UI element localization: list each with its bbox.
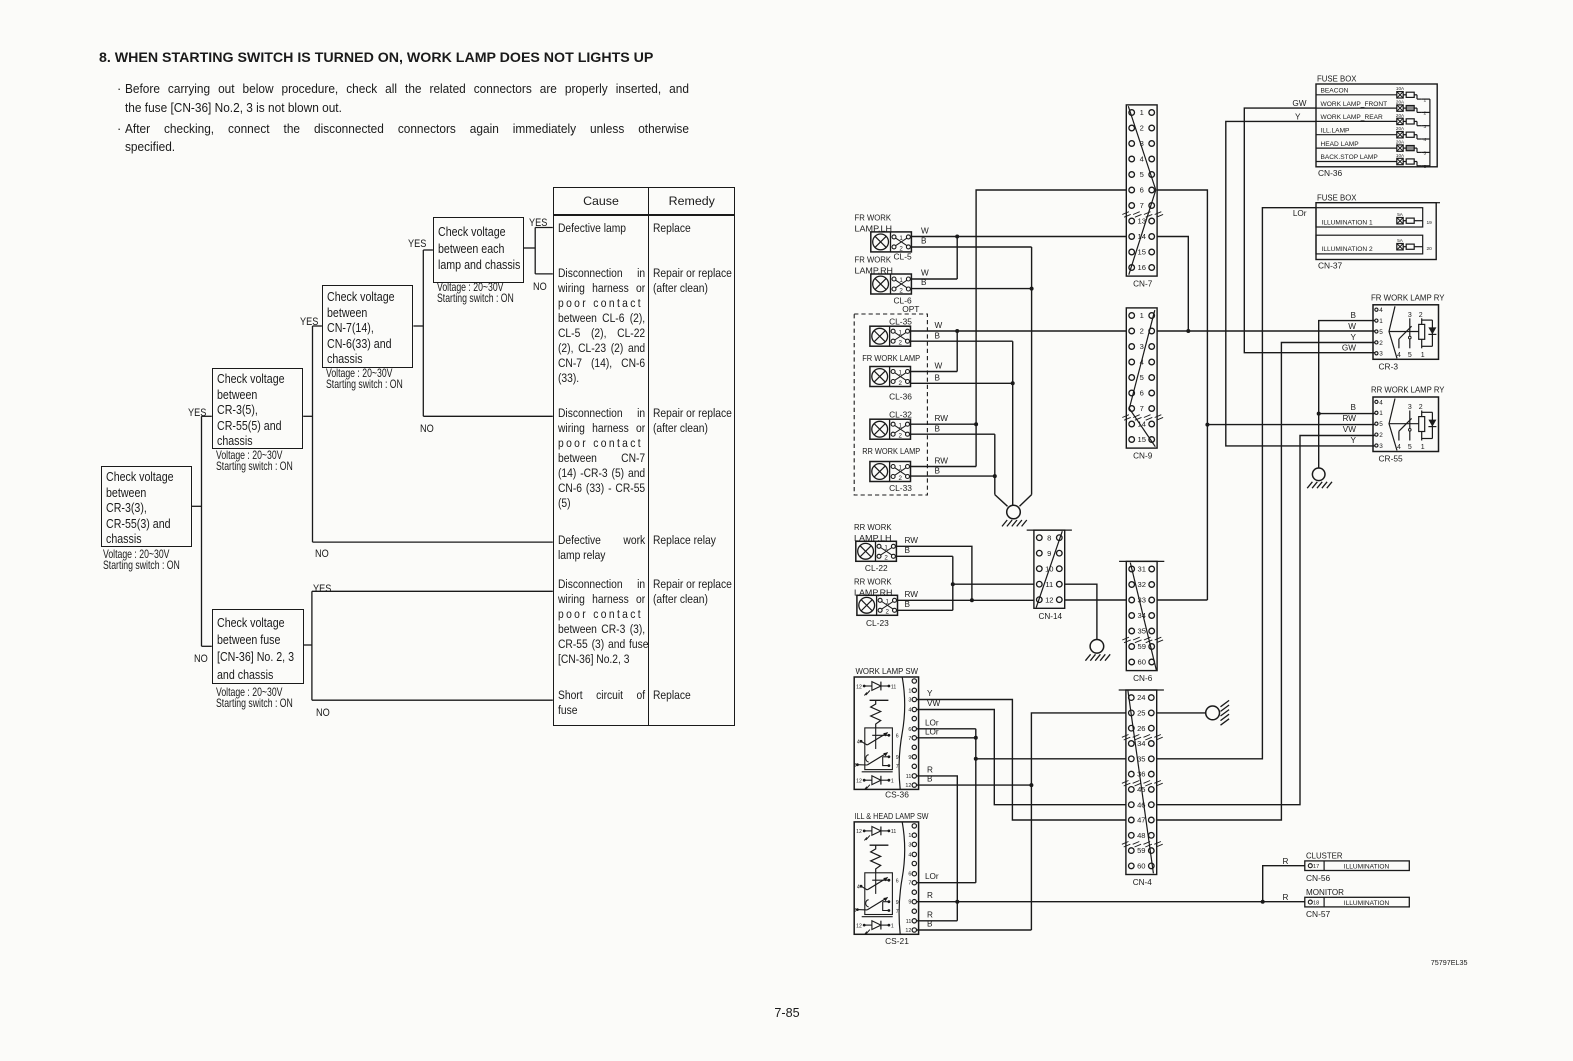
connector CN-14	[1027, 530, 1072, 621]
svg-text:CL-36: CL-36	[889, 391, 912, 401]
svg-text:RW: RW	[1343, 414, 1357, 423]
wire CN-7 pin6 to RW vertical	[1157, 190, 1207, 600]
lamp CL-23 (RR WORK LAMP RH)	[857, 595, 898, 615]
svg-text:17: 17	[1313, 864, 1319, 870]
svg-text:RW: RW	[935, 457, 949, 466]
svg-text:1: 1	[891, 923, 894, 929]
svg-text:WORK LAMP_FRONT: WORK LAMP_FRONT	[1321, 101, 1388, 108]
svg-text:FR WORK: FR WORK	[855, 213, 892, 223]
svg-text:3: 3	[908, 842, 911, 848]
wire CL-36 pin1 W	[911, 371, 958, 373]
svg-text:CR-55: CR-55	[1379, 454, 1404, 464]
wire CL-32/33 B into ground G1	[995, 495, 1008, 507]
junction at CN-9 pin2 wire	[1186, 329, 1190, 333]
svg-text:R: R	[1283, 893, 1289, 902]
svg-text:ILLUMINATION 2: ILLUMINATION 2	[1322, 246, 1374, 253]
wire B bus down CL-5/CL-6	[1031, 247, 1033, 495]
svg-text:32: 32	[1137, 580, 1145, 589]
svg-text:6: 6	[908, 872, 911, 878]
intro bullet line 2	[125, 101, 361, 115]
relay CR-55 (RR WORK LAMP RY)	[1343, 385, 1445, 464]
wire B bus to CN-4 pin25	[1031, 713, 1126, 930]
svg-text:B: B	[935, 425, 941, 434]
svg-text:20A: 20A	[1396, 140, 1405, 145]
svg-text:B: B	[905, 600, 911, 609]
svg-text:7: 7	[1140, 404, 1144, 413]
svg-text:59: 59	[1137, 642, 1145, 651]
svg-text:1: 1	[891, 779, 894, 785]
svg-text:2: 2	[898, 340, 902, 347]
wire CL-6 pin1 W	[911, 278, 957, 280]
wire CS-21 pin11 R	[917, 920, 958, 922]
svg-text:LAMP,RH: LAMP,RH	[855, 266, 894, 276]
connector CN-4	[1119, 690, 1164, 887]
flowchart box 2	[212, 368, 303, 448]
wire W junction to CN-7 pin14	[957, 236, 1126, 238]
svg-text:BACK.STOP LAMP: BACK.STOP LAMP	[1321, 154, 1379, 161]
wire LOr to CN-4 pin35 left	[976, 758, 1126, 760]
wire CL-36 pin2 B	[911, 382, 1013, 384]
svg-text:ILLUMINATION: ILLUMINATION	[1344, 863, 1390, 870]
svg-text:12: 12	[856, 684, 862, 690]
wire CS-36 pin3 Y to CN-4 pin47 left	[917, 700, 1126, 821]
svg-text:2: 2	[899, 287, 903, 294]
table row 1: defective lamp	[558, 221, 663, 236]
svg-text:1: 1	[1424, 97, 1427, 103]
ground G3 (relay coils)	[1307, 468, 1332, 488]
svg-text:CN-14: CN-14	[1038, 612, 1062, 621]
label NO box4	[533, 277, 549, 295]
svg-text:VW: VW	[1343, 425, 1356, 434]
svg-text:6: 6	[1424, 164, 1427, 170]
svg-text:8: 8	[1047, 533, 1051, 542]
svg-text:2: 2	[1379, 340, 1383, 347]
svg-text:7: 7	[896, 909, 899, 915]
wire B bus into ground G1	[1020, 495, 1032, 507]
wire CN-9 pin2 to CR-3 pin5 (W)	[1157, 330, 1374, 332]
svg-text:6: 6	[908, 727, 911, 733]
flow vertical box5 YES/NO	[311, 591, 313, 700]
wire CL-22 pin2 B	[896, 555, 952, 557]
svg-text:20A: 20A	[1396, 113, 1405, 118]
svg-text:CL-22: CL-22	[865, 563, 888, 573]
svg-text:4: 4	[908, 708, 911, 714]
flow vertical box2 YES/NO	[312, 326, 314, 542]
svg-text:4: 4	[1424, 137, 1427, 143]
svg-text:OPT: OPT	[902, 304, 919, 314]
svg-text:B: B	[1351, 311, 1357, 320]
wire CL-33 pin1 RW	[911, 466, 977, 468]
svg-text:3: 3	[1379, 351, 1383, 358]
flow line box4 out	[524, 247, 535, 249]
svg-text:HEAD LAMP: HEAD LAMP	[1321, 141, 1360, 148]
svg-text:31: 31	[1137, 565, 1145, 574]
svg-text:CS-36: CS-36	[885, 790, 909, 800]
wire CL-22 B bus	[952, 556, 954, 610]
svg-text:WORK LAMP_REAR: WORK LAMP_REAR	[1321, 114, 1384, 121]
OPT dashed box	[854, 314, 927, 495]
wire CS-21 pin7 LOr	[917, 882, 976, 884]
svg-text:CL-35: CL-35	[889, 316, 912, 326]
svg-text:1: 1	[1379, 318, 1383, 325]
flow line box5 out	[304, 644, 312, 646]
junction RW to CR-55 pin5	[1205, 423, 1209, 427]
svg-text:5: 5	[1408, 352, 1412, 359]
svg-text:B: B	[921, 278, 927, 287]
svg-text:12: 12	[856, 779, 862, 785]
wire CN-14 pin11 right to ground G2	[1065, 584, 1097, 639]
svg-text:2: 2	[1140, 327, 1144, 336]
svg-text:35: 35	[1137, 627, 1145, 636]
svg-text:3: 3	[1424, 124, 1427, 130]
svg-text:W: W	[921, 227, 929, 236]
flow line box3 out	[413, 325, 423, 327]
switch CS-36 (WORK LAMP SW)	[854, 677, 919, 790]
svg-text:9: 9	[908, 755, 911, 761]
wire RW to CR-55 pin5	[1207, 424, 1374, 426]
svg-text:1: 1	[1140, 311, 1144, 320]
junction CL-5/CL-6 W	[955, 235, 959, 239]
svg-text:1: 1	[1140, 108, 1144, 117]
svg-text:Y: Y	[1295, 113, 1301, 122]
svg-text:B: B	[935, 332, 941, 341]
wire LOr bus vertical	[975, 729, 977, 883]
svg-text:10A: 10A	[1396, 86, 1405, 91]
wire CL-5 pin1 W to junction	[911, 236, 957, 238]
svg-text:RR WORK LAMP RY: RR WORK LAMP RY	[1371, 385, 1445, 395]
svg-text:3: 3	[1379, 443, 1383, 450]
wire CS-36 pin6 LOr	[917, 728, 976, 730]
wire CN-4 pin25 right to ground G4	[1156, 712, 1206, 714]
svg-text:5: 5	[1379, 329, 1383, 336]
connector CN-7	[1122, 105, 1163, 289]
svg-text:R: R	[927, 765, 933, 774]
relay CR-3 (FR WORK LAMP RY)	[1342, 292, 1445, 371]
svg-text:2: 2	[1424, 111, 1427, 117]
junction R at cluster branch	[1261, 900, 1265, 904]
svg-text:W: W	[935, 321, 943, 330]
flow line box5 NO to table	[312, 699, 553, 701]
ground G2 (CN-14 pin11)	[1085, 640, 1110, 661]
connector CN-56 (CLUSTER)	[1305, 851, 1410, 871]
svg-text:19: 19	[1427, 220, 1433, 226]
svg-text:FUSE BOX: FUSE BOX	[1317, 193, 1357, 203]
intro bullet line 4	[125, 140, 179, 154]
svg-text:B: B	[935, 467, 941, 476]
svg-text:2: 2	[1379, 432, 1383, 439]
svg-text:CN-56: CN-56	[1306, 873, 1331, 883]
svg-text:CS-21: CS-21	[885, 936, 909, 946]
junction LOr pins 6/7	[974, 736, 978, 740]
svg-text:9: 9	[896, 900, 899, 906]
svg-text:RR WORK LAMP: RR WORK LAMP	[862, 446, 920, 456]
svg-text:7: 7	[908, 736, 911, 742]
svg-text:Y: Y	[927, 689, 933, 698]
lamp CL-5 (FR WORK LAMP LH)	[871, 232, 912, 252]
svg-text:5A: 5A	[1397, 212, 1404, 217]
wire B bus CL-32/33	[994, 434, 996, 494]
junction RW bus at CL-32	[974, 422, 978, 426]
svg-text:25: 25	[1137, 709, 1145, 718]
lamp CL-6 (FR WORK LAMP RH)	[871, 274, 912, 294]
flow line into box5	[202, 645, 212, 647]
svg-text:LOr: LOr	[925, 718, 939, 727]
table row 5	[558, 577, 663, 667]
wire CL-32 pin2 B	[911, 433, 995, 435]
svg-text:7: 7	[896, 764, 899, 770]
wire CL-23 pin1 RW to CN-14 pin12	[898, 599, 1034, 601]
svg-text:12: 12	[905, 783, 911, 789]
label NO box2	[315, 544, 331, 562]
svg-text:LAMP,LH: LAMP,LH	[854, 533, 892, 543]
svg-text:4: 4	[857, 740, 860, 746]
wire CL-35 pin1 W to junction	[911, 330, 958, 332]
svg-text:10A: 10A	[1396, 153, 1405, 158]
svg-text:4: 4	[857, 885, 860, 891]
flow line box4 NO to table	[535, 273, 553, 275]
svg-text:3: 3	[1408, 312, 1412, 319]
wire CL-22 pin1 RW	[896, 546, 972, 600]
svg-text:5: 5	[1408, 444, 1412, 451]
svg-text:CN-37: CN-37	[1318, 261, 1343, 271]
svg-text:3: 3	[854, 763, 857, 769]
svg-text:5: 5	[1140, 373, 1144, 382]
svg-text:48: 48	[1137, 831, 1145, 840]
svg-text:FR WORK LAMP: FR WORK LAMP	[862, 353, 920, 363]
svg-text:4: 4	[908, 852, 911, 858]
svg-text:11: 11	[906, 919, 912, 925]
svg-text:Y: Y	[1351, 333, 1357, 342]
svg-text:WORK LAMP SW: WORK LAMP SW	[856, 666, 919, 676]
svg-text:3: 3	[1140, 342, 1144, 351]
wire CR-55 pin2 VW to CN-4 pin46	[1156, 436, 1375, 805]
wire CN-6 pin33 right to RW vertical	[1157, 599, 1207, 601]
lamp CL-36	[870, 367, 911, 387]
svg-text:RW: RW	[935, 414, 949, 423]
wire RW bus up to CN-7 pin6	[976, 190, 1126, 467]
label NO box3	[420, 419, 436, 437]
svg-text:W: W	[935, 362, 943, 371]
svg-text:CN-7: CN-7	[1133, 280, 1153, 289]
wire CR-3 pin1 B	[1319, 321, 1375, 468]
wire GW: fuse WORK LAMP_FRONT to CR-3 pin3	[1244, 108, 1374, 353]
flow vertical box1 YES/NO	[201, 416, 203, 646]
wire CS-36 pin12 B	[917, 784, 1032, 786]
svg-text:6: 6	[896, 879, 899, 885]
wire W junction to CN-9 pin2	[957, 330, 1126, 332]
page number	[742, 1007, 832, 1020]
svg-text:4: 4	[1379, 399, 1383, 406]
lamp CL-22 (RR WORK LAMP LH)	[856, 541, 897, 561]
flow vertical box4 YES/NO	[534, 228, 536, 274]
svg-text:RW: RW	[905, 536, 919, 545]
connector CN-6	[1119, 561, 1164, 683]
label YES box1	[188, 403, 210, 421]
svg-text:ILL & HEAD LAMP SW: ILL & HEAD LAMP SW	[855, 811, 929, 821]
svg-text:B: B	[935, 374, 941, 383]
svg-text:36: 36	[1137, 770, 1145, 779]
svg-text:4: 4	[1379, 307, 1383, 314]
label YES box3	[408, 234, 430, 252]
svg-text:11: 11	[906, 774, 912, 780]
svg-text:CL-5: CL-5	[894, 252, 912, 262]
svg-text:4: 4	[1397, 352, 1401, 359]
cause/remedy table	[553, 187, 736, 726]
svg-text:R: R	[1283, 857, 1289, 866]
svg-text:16: 16	[1137, 263, 1145, 272]
svg-text:9: 9	[908, 900, 911, 906]
svg-text:34: 34	[1137, 739, 1145, 748]
wire CS-21 pin12 B	[917, 929, 1032, 931]
label YES box2	[300, 312, 322, 330]
svg-text:CN-36: CN-36	[1318, 168, 1343, 178]
svg-text:CL-23: CL-23	[866, 618, 889, 628]
svg-text:LOr: LOr	[925, 727, 939, 736]
svg-text:B: B	[1351, 403, 1357, 412]
svg-text:4: 4	[1140, 155, 1144, 164]
svg-text:CN-9: CN-9	[1133, 452, 1153, 461]
svg-text:11: 11	[891, 684, 896, 690]
svg-text:4: 4	[1397, 444, 1401, 451]
flow line box2 NO to table	[313, 541, 553, 543]
svg-text:2: 2	[898, 380, 902, 387]
junction CL-22/23 RW	[970, 598, 974, 602]
flow line box5 YES to table	[312, 590, 553, 592]
junction R bus	[955, 900, 959, 904]
svg-text:24: 24	[1137, 693, 1145, 702]
flow line into box4	[423, 249, 433, 251]
junction CL-35/CL-36 W	[955, 329, 959, 333]
svg-text:26: 26	[1137, 724, 1145, 733]
svg-text:GW: GW	[1342, 344, 1356, 353]
table row 3	[558, 406, 663, 511]
lamp CL-33	[870, 462, 911, 482]
wire CL-33 pin2 B	[911, 475, 995, 477]
flow line box1 branch	[192, 505, 202, 507]
svg-text:12: 12	[856, 829, 862, 835]
heading	[99, 51, 653, 66]
junction CL-22/23 B	[951, 582, 955, 586]
svg-text:CN-4: CN-4	[1133, 878, 1153, 887]
svg-text:5A: 5A	[1397, 238, 1404, 243]
svg-text:B: B	[905, 546, 911, 555]
svg-text:ILLUMINATION 1: ILLUMINATION 1	[1322, 219, 1374, 226]
wire CN-7 pin14 to CN-9 pin2 right	[1157, 237, 1188, 332]
ground G4 (CN-4 pin25)	[1206, 700, 1229, 725]
wire CL-35 pin2 B	[911, 340, 1013, 342]
svg-text:2: 2	[885, 609, 889, 616]
svg-text:FR WORK LAMP RY: FR WORK LAMP RY	[1371, 292, 1445, 302]
table row 4	[558, 533, 663, 563]
svg-text:CN-57: CN-57	[1306, 909, 1331, 919]
svg-text:6: 6	[1140, 389, 1144, 398]
svg-text:12: 12	[1045, 595, 1053, 604]
flowchart box 4	[433, 217, 524, 283]
svg-text:ILL.LAMP: ILL.LAMP	[1321, 127, 1351, 134]
svg-text:GW: GW	[1292, 99, 1306, 108]
svg-text:LAMP,LH: LAMP,LH	[855, 224, 893, 234]
svg-text:B: B	[927, 920, 933, 929]
svg-text:5: 5	[1379, 421, 1383, 428]
connector CN-9	[1122, 308, 1163, 461]
intro bullet line 1	[117, 82, 121, 96]
wire CS-36 pin11 R	[917, 776, 958, 921]
svg-text:LOr: LOr	[1293, 209, 1307, 218]
wire R bus to cluster/monitor	[917, 901, 1305, 903]
svg-text:2: 2	[884, 555, 888, 562]
svg-text:7: 7	[908, 881, 911, 887]
svg-text:CR-3: CR-3	[1379, 361, 1399, 371]
wire CL-36 W riser	[956, 331, 958, 372]
flow vertical box3 YES/NO	[422, 250, 424, 416]
wire CS-36 pin7 LOr	[917, 737, 976, 739]
svg-text:60: 60	[1137, 862, 1145, 871]
svg-text:Y: Y	[1351, 436, 1357, 445]
svg-text:15: 15	[1137, 248, 1145, 257]
svg-text:3: 3	[854, 908, 857, 914]
wire LOr: CN-37 to CN-4 pin35 right	[1156, 208, 1316, 759]
svg-text:1: 1	[1421, 444, 1425, 451]
svg-text:11: 11	[891, 829, 896, 835]
svg-text:47: 47	[1137, 816, 1145, 825]
svg-text:RR WORK: RR WORK	[854, 522, 892, 532]
junction CR-55 B	[1317, 412, 1321, 416]
flow line box4 YES to table	[535, 227, 553, 229]
connector CN-57 (MONITOR)	[1305, 887, 1410, 907]
flowchart box 1	[101, 466, 193, 547]
flow line into box3	[313, 325, 322, 327]
svg-text:18: 18	[1313, 901, 1319, 907]
switch CS-21 (ILL & HEAD LAMP SW)	[854, 822, 919, 935]
svg-text:CL-32: CL-32	[889, 409, 912, 419]
svg-text:20A: 20A	[1396, 126, 1405, 131]
svg-text:2: 2	[1419, 312, 1423, 319]
svg-text:12: 12	[856, 923, 862, 929]
wire Y: fuse WORK LAMP_REAR to CR-55 pin3	[1226, 121, 1375, 446]
svg-text:2: 2	[1419, 404, 1423, 411]
svg-text:9: 9	[1047, 549, 1051, 558]
svg-text:75797EL35: 75797EL35	[1431, 958, 1468, 967]
table row 6	[558, 688, 663, 718]
wire CL-6 W riser	[956, 237, 958, 280]
flowchart box 5	[212, 609, 304, 684]
svg-text:W: W	[1348, 322, 1356, 331]
svg-text:6: 6	[896, 734, 899, 740]
label NO box1	[194, 649, 210, 667]
svg-text:60: 60	[1137, 658, 1145, 667]
junction CL-36 B	[1011, 381, 1015, 385]
svg-text:7: 7	[1140, 201, 1144, 210]
junction CL-33 B	[993, 474, 997, 478]
wire CR-3 pin2 Y to CN-4 pin47	[1156, 343, 1375, 821]
svg-text:LOr: LOr	[925, 872, 939, 881]
svg-text:1: 1	[1379, 410, 1383, 417]
wire CL-32 pin1 RW	[911, 423, 977, 425]
lamp CL-32	[870, 419, 911, 439]
flow line box2 out	[303, 415, 312, 417]
svg-text:CN-6: CN-6	[1133, 674, 1153, 683]
wire R branch to CLUSTER pin17	[1263, 866, 1305, 902]
svg-text:1: 1	[908, 688, 911, 694]
svg-text:VW: VW	[927, 699, 940, 708]
junction LOr at CN-4 pin35 wire	[974, 757, 978, 761]
svg-text:34: 34	[1137, 611, 1145, 620]
svg-text:59: 59	[1137, 846, 1145, 855]
svg-text:3: 3	[1408, 404, 1412, 411]
svg-text:LAMP,RH: LAMP,RH	[854, 587, 893, 597]
junction CL-6 B	[1030, 287, 1034, 291]
svg-text:B: B	[927, 775, 933, 784]
